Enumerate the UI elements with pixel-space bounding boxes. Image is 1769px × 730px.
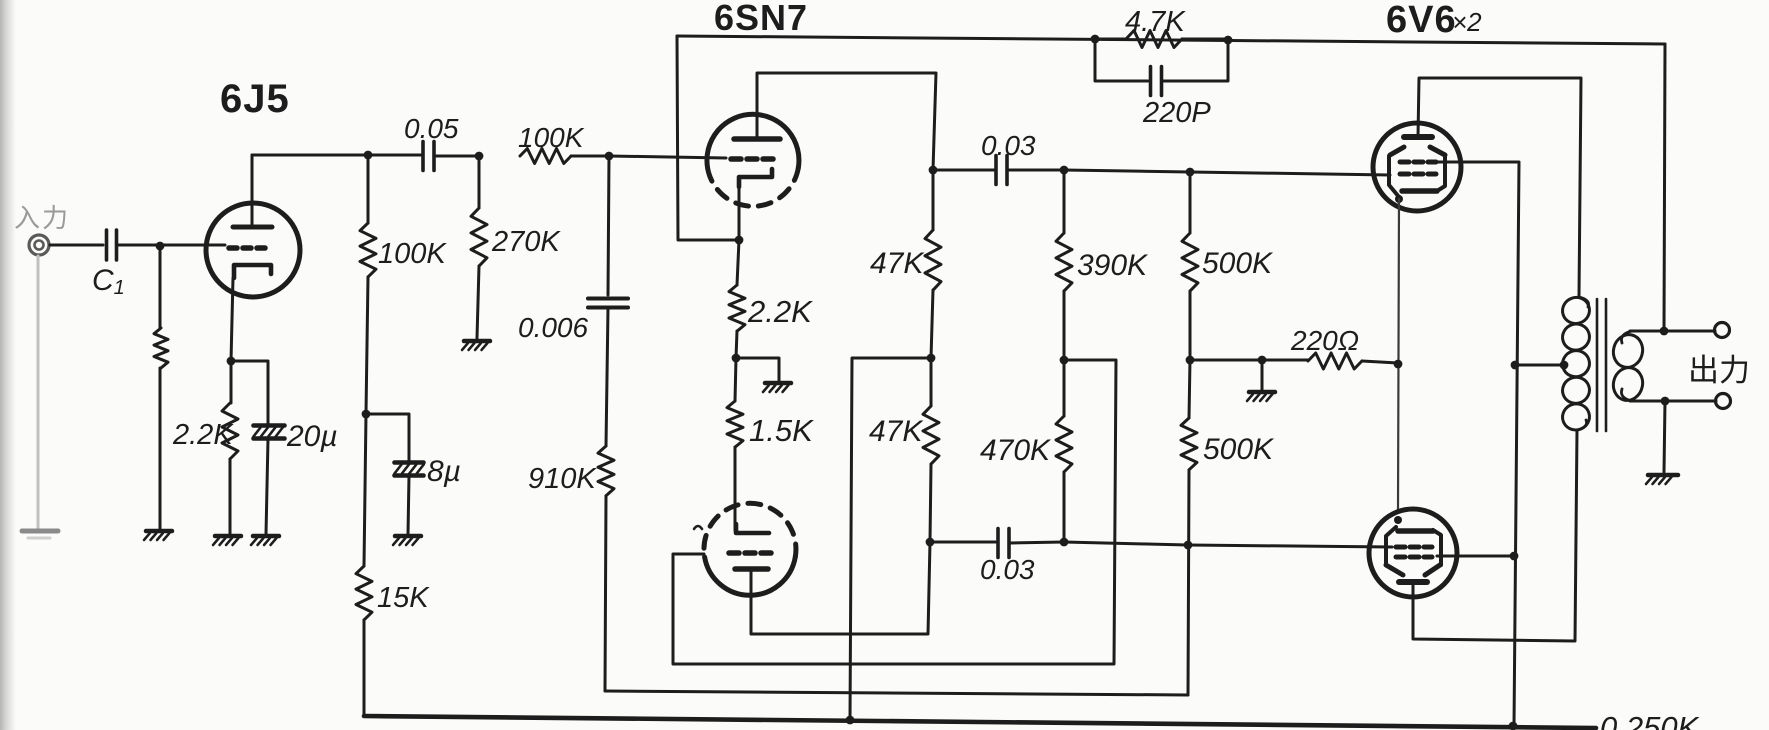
svg-text:6V6: 6V6 — [1386, 0, 1457, 41]
svg-text:220Ω: 220Ω — [1290, 325, 1359, 356]
svg-text:2.2K: 2.2K — [747, 294, 813, 329]
wire cathode upper 6V6 down — [1398, 199, 1399, 511]
tube 6V6 upper U3 — [1373, 123, 1461, 211]
node cathode A — [735, 236, 744, 245]
svg-text:220P: 220P — [1142, 97, 1211, 129]
capacitor 0.03 upper — [933, 169, 994, 172]
node 500K top — [1186, 168, 1195, 177]
resistor 500K lower — [1189, 360, 1190, 418]
ground — [146, 529, 172, 534]
squiggle mark — [694, 526, 702, 529]
wire screen lower 6V6 — [1437, 555, 1514, 558]
svg-text:270K: 270K — [491, 226, 561, 258]
wire feedback top — [677, 36, 1665, 44]
node divider — [1060, 356, 1069, 365]
resistor 500K upper — [1189, 172, 1192, 233]
capacitor 0.006 — [608, 156, 609, 295]
node plate junction — [364, 151, 373, 160]
node 390K top — [1060, 166, 1069, 175]
node plate A / 0.03 — [929, 166, 938, 175]
wire secondary bottom — [1630, 400, 1716, 403]
svg-text:0.03: 0.03 — [981, 130, 1036, 161]
resistor 390K — [1063, 170, 1066, 233]
svg-text:6SN7: 6SN7 — [714, 0, 808, 38]
wire — [1190, 359, 1262, 362]
wire — [1064, 542, 1188, 545]
tube 6SN7 triode A — [707, 114, 799, 206]
transformer T1 primary — [1559, 294, 1593, 433]
node 470K bottom — [1060, 538, 1069, 547]
resistor grid leak — [159, 246, 162, 328]
svg-text:6J5: 6J5 — [220, 77, 290, 121]
svg-text:0.05: 0.05 — [404, 113, 459, 144]
capacitor 0.03 lower — [930, 541, 996, 544]
resistor 270K — [478, 156, 481, 208]
node input terminal — [29, 235, 49, 255]
wire grid B path — [673, 360, 1116, 664]
node 500K junction — [1186, 356, 1195, 365]
capacitor 20u bypass — [254, 423, 285, 428]
node feedback left — [1091, 35, 1100, 44]
resistor 2.2K cathode — [230, 361, 233, 403]
svg-text:C1: C1 — [92, 264, 125, 299]
svg-text:910K: 910K — [528, 463, 597, 495]
wire B+ rail — [364, 716, 1596, 728]
wire plate node — [252, 154, 368, 157]
resistor 4.7K feedback — [1126, 31, 1182, 48]
transformer T1 secondary — [1610, 331, 1646, 404]
capacitor 0.05 coupling — [368, 154, 421, 157]
wire 6J5 cathode down — [231, 278, 233, 361]
svg-text:出力: 出力 — [1688, 353, 1750, 388]
node 500K2 bottom — [1184, 541, 1193, 550]
node plate B / 0.03 — [926, 538, 935, 547]
wire 910K bottom rail to 500K leg — [605, 691, 1188, 695]
svg-text:0.250K: 0.250K — [1600, 710, 1700, 730]
node feedback right — [1224, 36, 1233, 45]
ground — [1648, 473, 1678, 478]
node cathode upper 6V6 — [1395, 195, 1403, 203]
wire B+ riser — [850, 358, 931, 720]
node — [1509, 722, 1518, 730]
wire feedback drop to cathode — [677, 36, 737, 240]
tube 6SN7 triode B (inverted) — [704, 503, 796, 595]
wire feedback from secondary — [1664, 44, 1665, 331]
wire — [1007, 169, 1064, 172]
wire input to C1 — [50, 244, 103, 247]
wire 6J5 plate up — [251, 155, 254, 227]
node output terminal bottom — [1716, 394, 1731, 409]
svg-text:2.2K: 2.2K — [172, 419, 234, 451]
wire — [1064, 170, 1190, 172]
wire — [434, 155, 479, 158]
resistor 470K — [1063, 360, 1066, 416]
svg-text:47K: 47K — [870, 247, 925, 280]
svg-text:0.03: 0.03 — [980, 554, 1035, 585]
wire — [1009, 542, 1064, 543]
resistor 15K dropping — [364, 414, 366, 566]
ground — [464, 339, 490, 344]
node cathode junction — [227, 357, 236, 366]
resistor 220ohm — [1262, 359, 1308, 362]
resistor 47K upper — [932, 170, 935, 230]
svg-text:8µ: 8µ — [427, 455, 461, 488]
wire C1 to grid node — [117, 244, 225, 247]
svg-text:100K: 100K — [518, 122, 585, 153]
wire secondary top — [1630, 330, 1715, 333]
wire — [1261, 360, 1264, 390]
svg-text:1.5K: 1.5K — [749, 413, 814, 448]
svg-text:20µ: 20µ — [286, 420, 338, 453]
node grid junction — [156, 242, 165, 251]
wire 6SN7a cathode — [738, 187, 741, 240]
svg-text:500K: 500K — [1203, 433, 1275, 466]
wire center tap — [1515, 364, 1564, 367]
resistor 100K plate load 6J5 — [367, 155, 370, 223]
resistor 47K lower — [930, 358, 933, 406]
ground — [253, 534, 279, 539]
node grid of 6SN7a — [605, 152, 614, 161]
wire to 20u — [231, 361, 268, 425]
node — [475, 152, 484, 161]
capacitor 8u decoupling — [395, 460, 424, 465]
wire screen upper 6V6 — [1438, 162, 1519, 726]
wire plate lower 6V6 — [1413, 430, 1577, 641]
node output terminal top — [1715, 323, 1730, 338]
svg-text:470K: 470K — [980, 434, 1052, 467]
wire plate B to 47K — [751, 542, 930, 634]
ground — [395, 534, 421, 539]
capacitor 220P — [1095, 39, 1148, 81]
wire 6SN7a plate up-over — [757, 73, 936, 170]
ground — [1249, 390, 1275, 395]
ground — [765, 381, 791, 386]
wire grid into 6SN7a — [609, 156, 726, 158]
resistor 2.2K 6SN7 cathode — [737, 240, 739, 285]
wire secondary ground — [1664, 401, 1665, 472]
transformer core — [1597, 299, 1606, 431]
svg-text:100K: 100K — [378, 238, 447, 270]
wire plate upper 6V6 — [1418, 78, 1581, 296]
node bias junction — [732, 354, 741, 363]
node — [846, 716, 855, 725]
node decoupling junction — [362, 410, 371, 419]
svg-text:4.7K: 4.7K — [1125, 6, 1186, 38]
input label — [14, 198, 70, 235]
node screen junction — [1510, 552, 1519, 561]
resistor 1.5K — [735, 358, 736, 401]
svg-text:47K: 47K — [869, 415, 924, 448]
wire grid upper 6V6 — [1190, 172, 1390, 175]
svg-text:×2: ×2 — [1452, 7, 1482, 37]
wire grid lower 6V6 — [1188, 545, 1392, 547]
svg-text:15K: 15K — [377, 582, 430, 614]
svg-text:0.006: 0.006 — [518, 312, 588, 343]
node 220ohm cathode — [1394, 360, 1403, 369]
node ground tap — [1258, 356, 1267, 365]
capacitor C1 — [105, 230, 109, 260]
svg-text:500K: 500K — [1202, 247, 1274, 280]
wire to ground — [736, 358, 779, 381]
node cathode lower 6V6 — [1394, 516, 1402, 524]
tube 6V6 lower U4 (inverted) — [1369, 509, 1457, 597]
resistor 100K grid series — [520, 149, 571, 164]
wire to 8u — [366, 414, 409, 462]
resistor 910K — [606, 308, 608, 446]
node B+ tap — [927, 354, 936, 363]
ground — [215, 534, 241, 539]
svg-text:390K: 390K — [1077, 249, 1149, 282]
wire input ground lead (faint) — [37, 256, 40, 528]
